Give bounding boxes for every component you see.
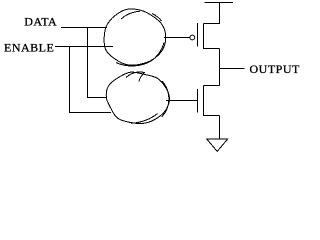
power VDD rail bar [205, 2, 234, 4]
svg-text:OUTPUT: OUTPUT [250, 62, 301, 76]
wire DATA to top cloud input [61, 27, 107, 29]
wire NMOS source down to ground [219, 116, 221, 140]
wire bottom cloud output to NMOS gate [166, 100, 198, 102]
pmos Q1 drain lead [204, 48, 220, 50]
wire DATA branch down to bottom cloud upper input [88, 28, 108, 98]
nmos Q2 source lead [204, 115, 220, 117]
wire ENABLE to top cloud input [55, 46, 113, 48]
wire top cloud output to PMOS gate bubble [164, 37, 190, 39]
ground symbol [207, 139, 228, 151]
svg-text:ENABLE: ENABLE [4, 41, 54, 55]
logic cloud U1 (top, drives PMOS gate) [104, 9, 166, 66]
pmos Q1 channel bar [203, 24, 205, 50]
wire ENABLE branch down to bottom cloud lower input [70, 47, 112, 113]
nmos Q2 gate bar [197, 89, 199, 113]
svg-text:DATA: DATA [24, 15, 57, 29]
pmos Q1 gate bubble [190, 35, 195, 40]
nmos Q2 drain lead [204, 85, 220, 87]
pmos Q1 source lead to VDD [204, 3, 220, 24]
pmos Q1 gate bar [197, 23, 199, 47]
nmos Q2 channel bar [203, 86, 205, 117]
wire OUTPUT tap [220, 68, 245, 70]
wire PMOS drain down to NMOS drain [219, 49, 221, 86]
logic cloud U2 (bottom, drives NMOS gate) [106, 72, 169, 124]
